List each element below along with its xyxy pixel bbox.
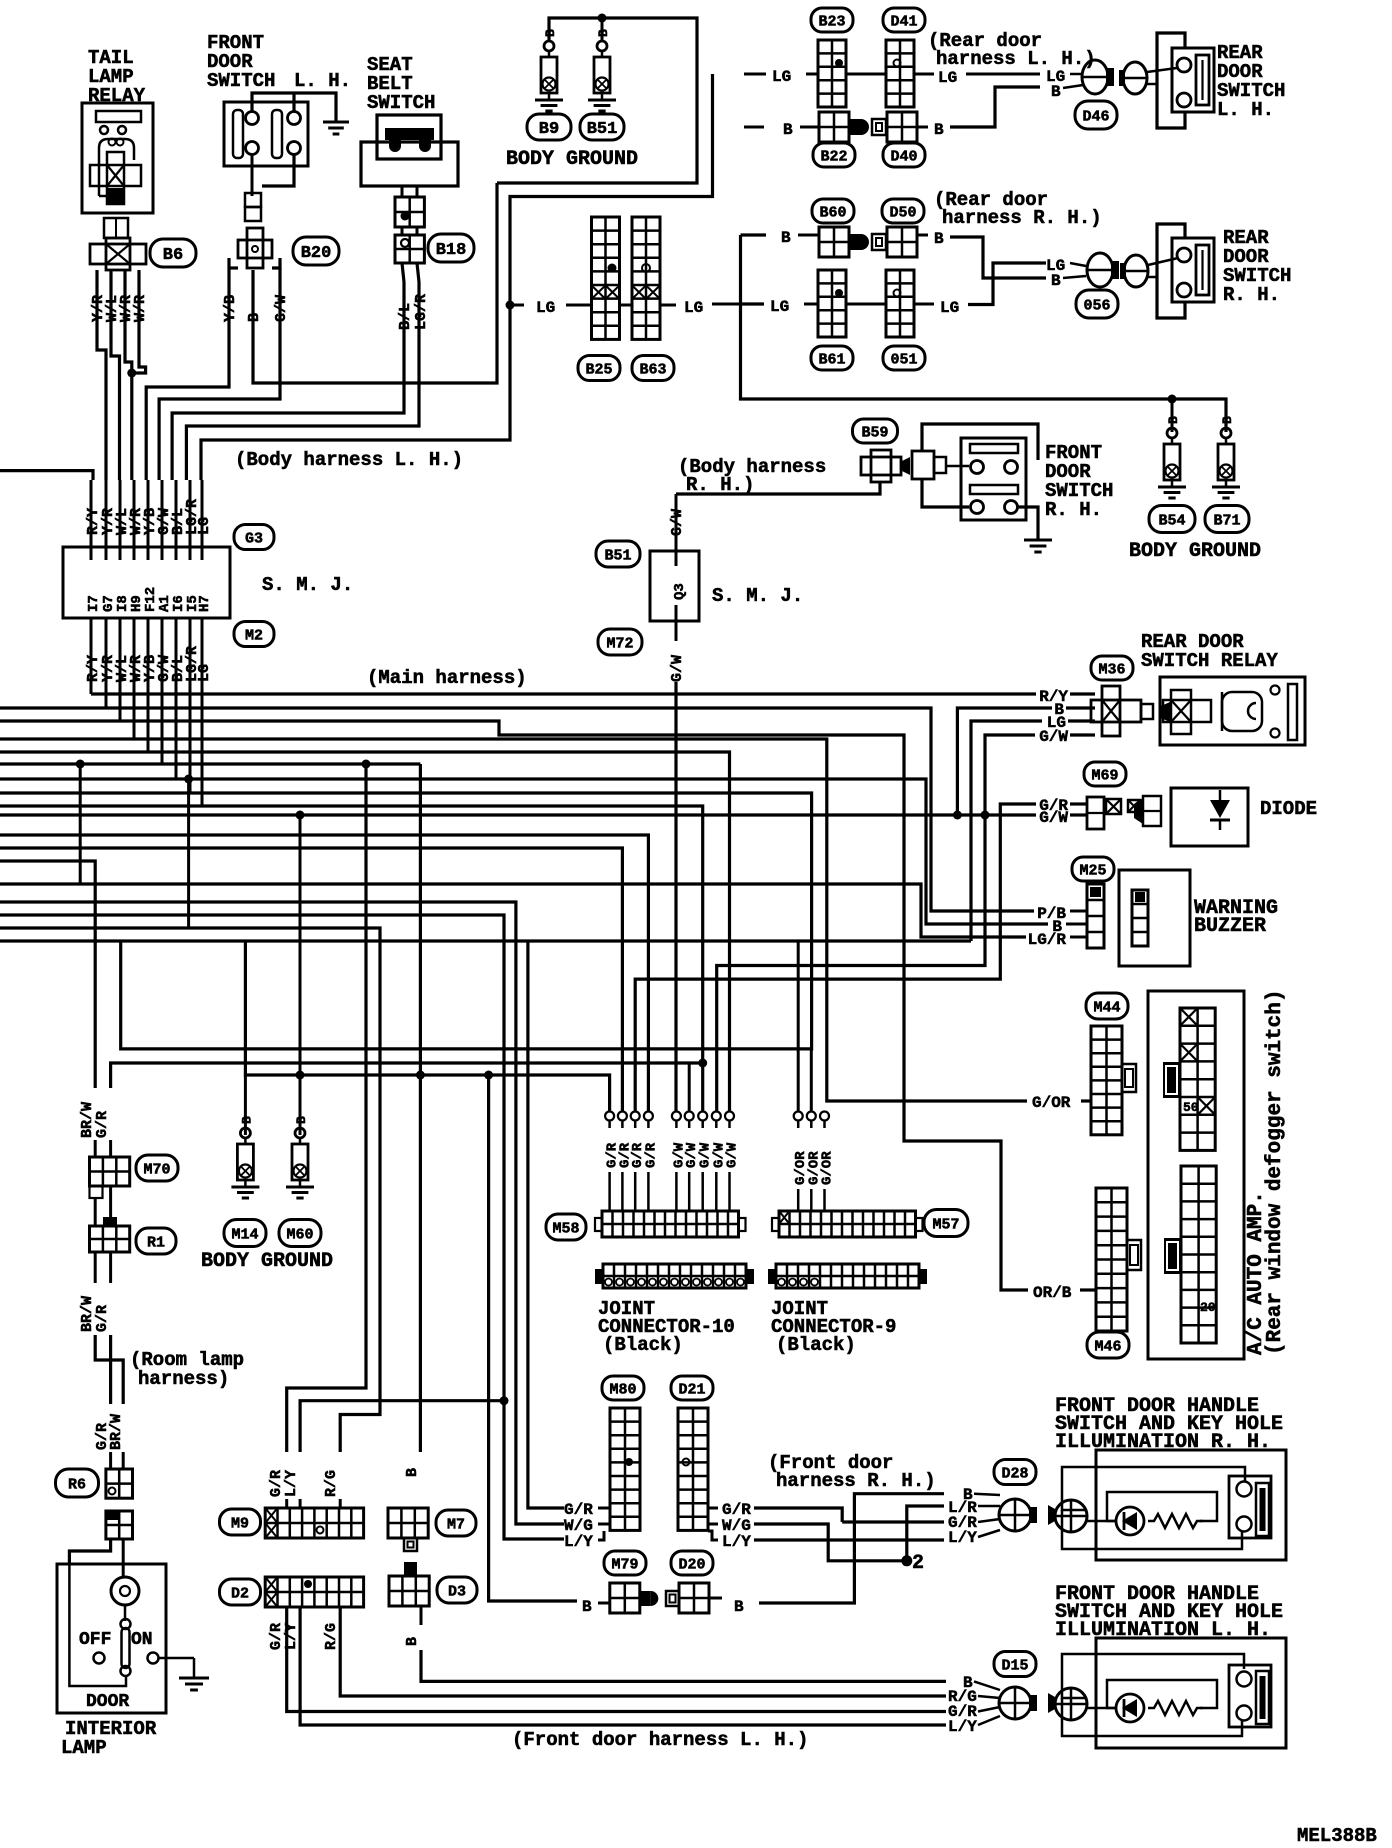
svg-text:R6: R6 bbox=[68, 1476, 86, 1493]
SMJ pin drop wires to main harness rows bbox=[90, 630, 93, 694]
wire LG into B23 bbox=[744, 73, 766, 76]
svg-text:B: B bbox=[934, 121, 944, 139]
joint connector M57 terminal circles bbox=[794, 1112, 803, 1121]
svg-text:M14: M14 bbox=[231, 1226, 258, 1243]
wire stubs to M25 bbox=[1070, 910, 1087, 913]
wire B to front door harness LH bbox=[421, 1650, 946, 1681]
rear door switch relay box bbox=[1160, 677, 1305, 745]
wires D21 to labels bbox=[708, 1507, 718, 1510]
wire G/R to R6 bbox=[109, 1335, 112, 1404]
connector M25 bbox=[1087, 884, 1104, 948]
svg-text:2: 2 bbox=[912, 1552, 924, 1575]
wire R6 to interior lamp left bbox=[69, 1539, 110, 1565]
wire LG B63 to right with junction at 740 bbox=[660, 304, 676, 307]
connector B6 bbox=[104, 218, 128, 238]
svg-text:B: B bbox=[596, 29, 611, 37]
svg-text:B60: B60 bbox=[819, 204, 846, 221]
svg-text:M57: M57 bbox=[932, 1216, 959, 1233]
wire to M14/M60 grounds and joint connector circle 1 bbox=[245, 941, 609, 1111]
handle RH bracket loop bbox=[1062, 1467, 1245, 1510]
relay coil bbox=[1222, 692, 1262, 731]
svg-text:B18: B18 bbox=[436, 241, 467, 260]
wire B drop to M79/D20 row bbox=[489, 1075, 577, 1601]
connector M44 tab bbox=[1122, 1064, 1136, 1092]
connector seat belt upper bbox=[395, 197, 424, 227]
svg-text:LG: LG bbox=[770, 298, 789, 316]
svg-text:B61: B61 bbox=[818, 351, 845, 368]
joint connector terminal circles group 2 bbox=[672, 1112, 681, 1121]
svg-text:G/W: G/W bbox=[725, 1142, 741, 1168]
junction dot L/Y split bbox=[500, 1396, 509, 1405]
handle LH switch part bbox=[1229, 1665, 1271, 1727]
main harness row with junctions to lower connectors bbox=[0, 762, 420, 765]
main harness row to L/Y feed with junction bbox=[0, 915, 564, 1539]
connector D2 grid bbox=[265, 1577, 363, 1607]
wire 1063 jog to M70 G/R bbox=[111, 1063, 703, 1088]
oval M36 bbox=[1091, 656, 1133, 680]
svg-text:DOOR: DOOR bbox=[86, 1692, 129, 1712]
connector R6 bbox=[106, 1469, 133, 1498]
wire B from D40 to rear door LH bbox=[917, 126, 928, 129]
wire LG from D41 to rear door LH bbox=[914, 73, 934, 76]
wire body harness RH to B59 bbox=[676, 482, 880, 494]
oval D40 bbox=[883, 143, 925, 167]
svg-text:B: B bbox=[294, 1116, 309, 1124]
svg-text:(Black): (Black) bbox=[776, 1334, 856, 1356]
svg-text:R/G: R/G bbox=[323, 1623, 340, 1650]
main harness row to joint connector via 1048 jog bbox=[0, 793, 812, 1049]
bullet connector pair rear door switch RH bbox=[1087, 253, 1113, 287]
connector M9 grid bbox=[265, 1508, 363, 1538]
connector M46 tab bbox=[1127, 1240, 1141, 1270]
oval D28 bbox=[994, 1460, 1036, 1485]
svg-text:B: B bbox=[239, 1116, 254, 1124]
wire B from D50 to rear door RH bbox=[917, 234, 928, 237]
svg-text:S. M. J.: S. M. J. bbox=[262, 574, 353, 596]
svg-text:D20: D20 bbox=[678, 1556, 705, 1573]
oval M69 bbox=[1084, 762, 1126, 786]
svg-text:B59: B59 bbox=[861, 424, 888, 441]
oval B51 bbox=[580, 114, 624, 140]
oval M79 bbox=[604, 1551, 646, 1575]
svg-text:D41: D41 bbox=[890, 13, 917, 30]
svg-text:B: B bbox=[934, 230, 944, 248]
wire from dot row764 down to row884 bbox=[79, 764, 82, 884]
wire G/W down to joint connector circle 5 bbox=[675, 621, 678, 641]
svg-text:R. H.: R. H. bbox=[1045, 499, 1102, 521]
rear door switch R.H. bracket bbox=[1157, 224, 1185, 318]
oval B54 bbox=[1149, 506, 1195, 533]
wire stubs D15 bbox=[974, 1681, 1000, 1690]
main harness row B bbox=[0, 708, 1034, 911]
oval B23 bbox=[811, 8, 853, 32]
main harness row to joint connector circle 7 bbox=[0, 806, 703, 1111]
diode box bbox=[1171, 788, 1248, 846]
oval B61 bbox=[811, 346, 853, 370]
left bracket wire B60/B61 to bottom bus bbox=[741, 235, 1227, 432]
A/C amp connector grid 2 bbox=[1181, 1166, 1216, 1343]
wire R/G below D2 to front door harness LH bbox=[340, 1607, 946, 1696]
main harness row to warning buzzer B bbox=[0, 779, 1048, 924]
junction dot row806-1063 bbox=[698, 1059, 707, 1068]
svg-text:D46: D46 bbox=[1082, 108, 1109, 125]
diode connector pair bbox=[1128, 800, 1140, 812]
main harness row to circle 4 bbox=[0, 835, 648, 1111]
svg-text:M60: M60 bbox=[286, 1226, 313, 1243]
oval M58 bbox=[546, 1214, 586, 1240]
oval R6 bbox=[56, 1469, 99, 1497]
wire G/R below D2 to front door harness LH bbox=[287, 1607, 946, 1712]
svg-text:L/Y: L/Y bbox=[948, 1718, 977, 1736]
svg-text:D3: D3 bbox=[448, 1583, 466, 1600]
junction dot LG at left vertical bbox=[506, 301, 515, 310]
front door switch R.H. body bbox=[961, 438, 1026, 520]
wire B/L from B18 to SMJ pin bbox=[402, 263, 404, 282]
connector M70 bbox=[90, 1157, 130, 1186]
connector B59 cross bbox=[871, 450, 891, 482]
wire stubs into M9 bbox=[285, 1499, 288, 1508]
svg-text:M69: M69 bbox=[1091, 767, 1118, 784]
wire drop to B54 bbox=[1171, 399, 1174, 432]
wire G/R row to D28 bbox=[842, 1520, 944, 1523]
wire drop from row779 to row928 bbox=[187, 779, 190, 928]
wires labels to M80 bbox=[598, 1507, 610, 1510]
buzzer internal connector bbox=[1132, 890, 1148, 946]
joint connector wire labels G/R x4 bbox=[608, 1120, 611, 1128]
diode symbol bbox=[1210, 800, 1230, 818]
wire B to rear door switch relay bbox=[957, 708, 1052, 815]
wire LG into B61 bbox=[741, 302, 765, 305]
junction dot row815 M60 column bbox=[296, 811, 305, 820]
svg-text:051: 051 bbox=[890, 351, 917, 368]
svg-text:I7: I7 bbox=[86, 595, 102, 612]
handle LH LED bbox=[1116, 1694, 1144, 1722]
svg-text:LG/R: LG/R bbox=[1028, 931, 1067, 949]
SMJ pin stubs bottom bbox=[90, 618, 93, 630]
junction dot at top bus bbox=[598, 14, 607, 23]
svg-text:M9: M9 bbox=[231, 1515, 249, 1532]
connector 051 grid bbox=[886, 270, 914, 337]
connector M69 bbox=[1087, 797, 1104, 829]
oval M60 bbox=[279, 1220, 321, 1247]
oval 056 bbox=[1076, 290, 1118, 318]
svg-text:50: 50 bbox=[1183, 1100, 1199, 1115]
svg-text:G/OR: G/OR bbox=[820, 1151, 836, 1185]
svg-text:M58: M58 bbox=[552, 1220, 579, 1237]
lamp bulb bbox=[111, 1577, 139, 1605]
connector B60 grid with tab bbox=[819, 227, 849, 257]
oval B9 bbox=[527, 114, 571, 140]
handle RH LED bbox=[1116, 1507, 1144, 1535]
wire BR/W jog to R6 bbox=[95, 1335, 123, 1404]
junction dot W/R merge bbox=[127, 369, 136, 378]
oval G3 bbox=[234, 525, 274, 550]
svg-text:B: B bbox=[543, 29, 558, 37]
wire G/R D21 to D28 L/R bbox=[754, 1508, 842, 1522]
wire stubs into M70 bbox=[94, 1140, 97, 1157]
oval B63 bbox=[632, 356, 674, 381]
oval M44 bbox=[1086, 993, 1128, 1019]
wire B from M79 row up to D28 bbox=[759, 1494, 944, 1603]
oval B6 bbox=[150, 239, 196, 267]
svg-text:B: B bbox=[404, 1637, 421, 1646]
oval 051 bbox=[883, 346, 925, 370]
oval M9 bbox=[220, 1509, 261, 1535]
wires bullet to switch RH bbox=[1148, 258, 1178, 265]
handle LH resistor bbox=[1148, 1701, 1203, 1715]
wire LG to rear door switch relay bbox=[971, 721, 1042, 941]
svg-text:B: B bbox=[582, 1598, 592, 1616]
svg-text:(Front door harness L. H.): (Front door harness L. H.) bbox=[512, 1729, 808, 1751]
wire G/W relay branch down to joint connector circle 8 bbox=[717, 815, 985, 1111]
svg-text:L/Y: L/Y bbox=[283, 1470, 300, 1497]
seat belt switch bbox=[377, 115, 441, 159]
wire LG between B61 and 051 bbox=[846, 303, 886, 306]
wire front door switch bottom-right to connector bbox=[262, 155, 294, 186]
svg-text:G/W: G/W bbox=[1039, 728, 1068, 746]
svg-text:LG: LG bbox=[196, 664, 213, 682]
handle LH lamp housing bbox=[1107, 1680, 1217, 1708]
svg-text:B54: B54 bbox=[1158, 512, 1185, 529]
wire stubs D28 bbox=[974, 1494, 1000, 1495]
oval B25 bbox=[578, 356, 620, 381]
svg-text:D15: D15 bbox=[1001, 1657, 1028, 1674]
svg-text:ON: ON bbox=[131, 1630, 153, 1650]
wire Y/R from B6 to SMJ pin bbox=[97, 270, 106, 480]
relay slot bbox=[1288, 684, 1297, 740]
connector M58 grid bbox=[595, 1218, 602, 1231]
svg-text:M36: M36 bbox=[1098, 661, 1125, 678]
main harness row to circle 2 bbox=[0, 848, 622, 1111]
svg-text:M80: M80 bbox=[609, 1381, 636, 1398]
svg-text:LG/R: LG/R bbox=[413, 294, 430, 330]
svg-text:M2: M2 bbox=[245, 627, 263, 644]
svg-text:D50: D50 bbox=[889, 204, 916, 221]
wire W/L from B6 to SMJ pin bbox=[111, 270, 120, 480]
oval D20 bbox=[671, 1551, 713, 1575]
wire front door switch top to ground bbox=[252, 93, 336, 122]
svg-text:L/Y: L/Y bbox=[722, 1533, 751, 1551]
svg-text:BODY GROUND: BODY GROUND bbox=[201, 1250, 333, 1273]
ground symbol front door switch RH bbox=[1024, 539, 1052, 542]
svg-text:B20: B20 bbox=[301, 244, 332, 263]
oval M14 bbox=[224, 1220, 266, 1247]
SMJ box bbox=[63, 547, 230, 618]
A/C amp connector grid 1 bbox=[1180, 1008, 1215, 1150]
svg-text:R/G: R/G bbox=[323, 1470, 340, 1497]
main harness row to G/OR (M44) bbox=[0, 739, 1027, 1101]
wire L/Y below D2 to front door harness LH bbox=[300, 1607, 946, 1725]
svg-text:G3: G3 bbox=[245, 530, 263, 547]
connector B22 grid with tab bbox=[819, 112, 849, 142]
switch position circles bbox=[94, 1653, 105, 1664]
main harness row to M80 W/G feed bbox=[0, 902, 564, 1524]
connector D50 grid with tab bbox=[872, 234, 886, 250]
connector B61 grid bbox=[818, 270, 846, 337]
handle RH switch part bbox=[1229, 1476, 1271, 1538]
oval D41 bbox=[883, 8, 925, 32]
connector M46 grid bbox=[1096, 1188, 1127, 1331]
handle RH lamp housing bbox=[1107, 1492, 1217, 1521]
wire R6 to lamp bulb bbox=[122, 1539, 125, 1577]
oval M80 bbox=[602, 1376, 644, 1400]
connector below R6 bbox=[106, 1511, 119, 1520]
wire W/R from B6 to SMJ pin bbox=[125, 270, 132, 480]
wire G/W through SMJ right bbox=[675, 494, 678, 551]
rear door switch R.H. body bbox=[1172, 238, 1214, 302]
svg-text:LAMP: LAMP bbox=[61, 1737, 107, 1759]
wire B from B20 down to ground net bbox=[253, 183, 497, 383]
relay internal connector bbox=[1161, 702, 1170, 722]
main harness row R/Y to rear door switch relay bbox=[91, 692, 1036, 695]
oval D15 bbox=[994, 1652, 1036, 1677]
oval B51 right bbox=[596, 541, 640, 567]
main harness row G/W to diode bbox=[0, 813, 1036, 816]
interior lamp box bbox=[57, 1564, 166, 1713]
wire G/R diode to joint connector circle 3 bbox=[635, 804, 1036, 1111]
bullet connector pair D15 bbox=[999, 1687, 1031, 1719]
svg-text:G/OR: G/OR bbox=[1032, 1094, 1071, 1112]
svg-text:(Body harness L. H.): (Body harness L. H.) bbox=[235, 449, 463, 471]
wire B below D3 bbox=[420, 1606, 423, 1625]
svg-text:harness L. H.): harness L. H.) bbox=[936, 48, 1096, 70]
wire LG/R from B18 to SMJ pin bbox=[417, 263, 419, 282]
main harness row to M9 R/G feed bbox=[0, 928, 380, 1452]
oval M46 bbox=[1087, 1332, 1129, 1358]
svg-text:M46: M46 bbox=[1094, 1338, 1121, 1355]
connector D3 grid with tab bbox=[404, 1562, 417, 1576]
main harness row to OR/B (M46) bbox=[0, 721, 1028, 1290]
wire Y/B from B20 to SMJ pin bbox=[227, 258, 230, 280]
wire B right of D20 bbox=[709, 1597, 722, 1600]
lamp switch capsule bbox=[124, 1605, 127, 1621]
wire G/W to rear door switch relay bbox=[985, 735, 1035, 815]
svg-text:G/W: G/W bbox=[669, 655, 686, 682]
svg-text:B22: B22 bbox=[820, 148, 847, 165]
oval M72 bbox=[598, 629, 642, 655]
wire M60 ground column bbox=[299, 815, 302, 1135]
oval R1 bbox=[136, 1228, 176, 1254]
front door switch L.H. bbox=[224, 102, 308, 166]
svg-text:G/R: G/R bbox=[94, 1305, 111, 1332]
oval B20 bbox=[293, 237, 339, 265]
wire left loop to bottom-left pin bbox=[922, 479, 969, 507]
svg-text:20: 20 bbox=[1200, 1300, 1216, 1315]
svg-text:(Black): (Black) bbox=[603, 1334, 683, 1356]
connector D20 grid with tab bbox=[666, 1591, 679, 1606]
joint connector terminal circles group 1 bbox=[605, 1112, 614, 1121]
main harness row to warning buzzer LG/R bbox=[0, 884, 1026, 937]
svg-text:M72: M72 bbox=[606, 635, 633, 652]
svg-text:B: B bbox=[1166, 416, 1181, 424]
wire splice up to L/R label bbox=[907, 1506, 944, 1561]
svg-text:M79: M79 bbox=[611, 1556, 638, 1573]
svg-text:B: B bbox=[1220, 416, 1235, 424]
SMJ pin stubs top bbox=[90, 480, 93, 535]
oval B71 bbox=[1205, 506, 1249, 533]
svg-text:B25: B25 bbox=[585, 361, 612, 378]
svg-text:G/W: G/W bbox=[1039, 809, 1068, 827]
oval B59 bbox=[853, 419, 898, 443]
svg-text:BR/W: BR/W bbox=[108, 1414, 125, 1450]
wires from bundle to M57 circles bbox=[797, 941, 800, 1111]
svg-text:OFF: OFF bbox=[79, 1630, 111, 1650]
SMJ right box bbox=[650, 551, 699, 621]
wire LG into B25 from left bbox=[510, 304, 524, 307]
warning buzzer box bbox=[1119, 870, 1190, 966]
svg-text:L. H.: L. H. bbox=[294, 70, 351, 92]
connector M79 grid with tab bbox=[610, 1583, 640, 1613]
connector M36 cross bbox=[1102, 686, 1120, 736]
svg-text:B: B bbox=[1051, 83, 1061, 101]
svg-text:L/Y: L/Y bbox=[948, 1529, 977, 1547]
svg-text:MEL388B: MEL388B bbox=[1297, 1825, 1377, 1847]
wires into bullet connector RH bbox=[1070, 263, 1086, 266]
connector B18 bbox=[395, 235, 424, 263]
junction dot bottom bus bbox=[1168, 395, 1177, 404]
wire switch RH to ground bbox=[1018, 507, 1038, 540]
connector B63 grid bbox=[632, 217, 660, 339]
wire front door switch bottom-left to connector bbox=[251, 155, 254, 196]
wire lamp to ground bbox=[159, 1657, 195, 1660]
svg-text:SWITCH: SWITCH bbox=[207, 70, 275, 92]
wires bullet to switch LH bbox=[1147, 68, 1177, 72]
stub circle6 from 1063 bbox=[688, 1063, 691, 1111]
splice dot with ref 2 bbox=[901, 1555, 912, 1566]
wires below R1 bbox=[94, 1252, 97, 1283]
oval B18 bbox=[428, 234, 474, 262]
svg-text:Q3: Q3 bbox=[672, 583, 688, 600]
svg-text:B9: B9 bbox=[539, 120, 559, 139]
svg-text:M25: M25 bbox=[1079, 862, 1106, 879]
oval B60 bbox=[812, 199, 854, 223]
oval D50 bbox=[882, 199, 924, 223]
oval M57 bbox=[924, 1210, 968, 1237]
svg-text:LG: LG bbox=[196, 517, 213, 535]
M57 wire labels G/OR x3 bbox=[797, 1120, 800, 1128]
svg-text:LG: LG bbox=[940, 299, 959, 317]
connector pair front door switch RH bbox=[902, 457, 910, 475]
svg-text:D40: D40 bbox=[890, 148, 917, 165]
main harness row bottom bbox=[0, 939, 971, 942]
svg-text:(Main harness): (Main harness) bbox=[367, 667, 527, 689]
wire body ground bus top bbox=[497, 18, 697, 183]
junction dot B branch M79 bbox=[484, 1071, 493, 1080]
oval D21 bbox=[671, 1376, 713, 1400]
oval D2 bbox=[220, 1579, 261, 1605]
connector R1 bbox=[103, 1217, 117, 1226]
svg-text:OR/B: OR/B bbox=[1033, 1284, 1072, 1302]
connector M80 grid bbox=[610, 1408, 640, 1530]
oval M25 bbox=[1072, 857, 1114, 881]
relay contacts bbox=[1271, 686, 1280, 695]
svg-text:M44: M44 bbox=[1093, 999, 1120, 1016]
wire LG between B25 and B63 bbox=[620, 304, 633, 307]
oval M2 bbox=[234, 622, 274, 647]
svg-text:L. H.: L. H. bbox=[1217, 99, 1274, 121]
junction dot B branch M7 bbox=[416, 1071, 425, 1080]
wire LG from 051 to rear door RH bbox=[914, 303, 934, 306]
wire G/R of M9 feed from row764 bbox=[287, 764, 366, 1452]
rear door switch L.H. body bbox=[1172, 48, 1214, 112]
rear door switch L.H. bracket bbox=[1157, 33, 1185, 128]
svg-text:B: B bbox=[404, 1468, 421, 1477]
connector B20 bbox=[245, 193, 261, 207]
svg-text:B: B bbox=[781, 229, 791, 247]
oval M7 bbox=[436, 1510, 476, 1536]
svg-text:B63: B63 bbox=[639, 361, 666, 378]
svg-text:D28: D28 bbox=[1001, 1465, 1028, 1482]
